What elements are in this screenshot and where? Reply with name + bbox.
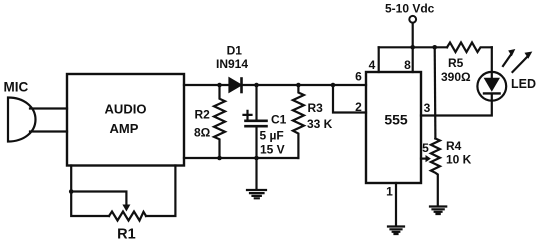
svg-text:5-10 Vdc: 5-10 Vdc <box>385 2 435 16</box>
svg-text:R5: R5 <box>448 56 464 70</box>
power terminal 5-10 Vdc <box>409 16 416 23</box>
svg-text:IN914: IN914 <box>216 57 248 71</box>
LED light arrow 2 <box>513 57 528 72</box>
svg-text:5: 5 <box>422 141 429 155</box>
svg-text:555: 555 <box>384 112 408 128</box>
ground symbol G2 (below R4) <box>430 207 446 215</box>
ground symbol G3 (pin 1) <box>388 227 404 235</box>
wire left leg <box>71 166 109 217</box>
wire amp bottom rail (ground bus) <box>184 157 298 159</box>
resistor R1 <box>109 212 146 221</box>
wire pin 4 to rail <box>378 47 380 72</box>
svg-text:R3: R3 <box>308 101 324 115</box>
ground symbol G1 <box>247 190 266 198</box>
svg-text:R4: R4 <box>446 139 462 153</box>
resistor R5 <box>447 43 492 53</box>
svg-text:390Ω: 390Ω <box>441 70 471 84</box>
node junction power/pin8 <box>410 45 415 50</box>
555 timer U1 box <box>366 72 421 183</box>
svg-text:MIC: MIC <box>4 80 29 95</box>
resistor R2 <box>214 85 225 158</box>
LED branch wire top <box>491 47 493 77</box>
svg-text:8: 8 <box>404 58 411 72</box>
svg-text:4: 4 <box>369 58 376 72</box>
wiper arrowhead R1 <box>122 205 130 212</box>
resistor R3 <box>293 85 304 158</box>
audio amp box U-AMP <box>67 74 184 166</box>
LED triangle <box>484 78 500 92</box>
wire mic top to amp <box>30 107 67 109</box>
node junction R2 bottom <box>217 156 222 161</box>
pin 5 wiper arrow <box>421 158 426 160</box>
node junction C1 bottom <box>254 156 259 161</box>
svg-text:AUDIO: AUDIO <box>105 102 147 117</box>
node junction C1 top <box>254 83 259 88</box>
diode D1 <box>230 79 241 92</box>
svg-text:10 K: 10 K <box>446 153 472 167</box>
wire power terminal down to pin 8 <box>412 23 414 72</box>
wire to ground <box>255 158 257 190</box>
svg-text:R1: R1 <box>117 227 136 243</box>
wire pin 1 to ground <box>395 183 397 226</box>
svg-text:R2: R2 <box>195 108 211 122</box>
svg-text:2: 2 <box>355 100 362 114</box>
node junction pin2 branch <box>331 83 336 88</box>
svg-text:C1: C1 <box>271 113 287 127</box>
svg-text:3: 3 <box>424 101 431 115</box>
potentiometer R4 <box>434 47 437 138</box>
svg-text:D1: D1 <box>227 44 243 58</box>
LED D2 circle <box>477 72 506 101</box>
wire amp output top rail to 555 pin 6 <box>184 84 366 86</box>
wire V+ rail <box>379 46 447 48</box>
wire LED bottom to pin 3 <box>421 94 492 116</box>
svg-text:5 µF: 5 µF <box>260 129 284 143</box>
svg-text:6: 6 <box>355 70 362 84</box>
microphone MIC symbol <box>8 98 36 142</box>
wiper wire of R1 <box>71 192 126 206</box>
wire pin2 branch <box>333 85 366 113</box>
LED light arrow 1 <box>503 55 511 67</box>
LED cathode bar <box>484 92 500 94</box>
svg-text:AMP: AMP <box>110 121 139 136</box>
plus sign of C1 <box>244 111 252 119</box>
svg-text:1: 1 <box>386 185 393 199</box>
svg-text:8Ω: 8Ω <box>194 126 211 140</box>
capacitor C1 <box>255 85 257 121</box>
svg-text:15 V: 15 V <box>260 143 285 157</box>
node junction R1 wiper <box>69 189 74 194</box>
node junction R4 top <box>432 45 437 50</box>
wire mic bottom to amp <box>30 130 67 132</box>
node junction R3 top <box>296 83 301 88</box>
node junction R2 top <box>217 83 222 88</box>
wire right leg <box>146 166 175 217</box>
svg-text:33 K: 33 K <box>307 117 333 131</box>
svg-text:LED: LED <box>511 77 536 91</box>
